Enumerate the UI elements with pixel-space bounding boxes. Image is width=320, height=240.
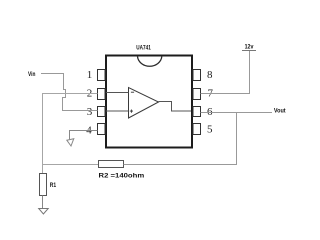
wire pin 7 to 12v supply (201, 51, 250, 94)
pin 2 box (98, 89, 106, 100)
pin 4 box (98, 124, 106, 135)
svg-text:R2 =140ohm: R2 =140ohm (99, 173, 145, 180)
pin 7 box (193, 89, 201, 100)
wire feedback node to R2 (43, 164, 100, 166)
pin 5 box (193, 124, 201, 135)
12v supply terminal bar (242, 50, 256, 52)
wire pin2 to inverting input (106, 92, 129, 94)
wire R2 to feedback vertical (124, 113, 237, 165)
U1 index notch (138, 57, 162, 67)
svg-text:8: 8 (207, 69, 213, 81)
pin 3 box (98, 107, 106, 117)
wire R1 to ground (42, 196, 44, 209)
pin 1 box (98, 70, 106, 81)
non-inverting input plus sign (130, 110, 133, 113)
resistor R2 (99, 161, 124, 168)
ground arrow at pin 4 (67, 139, 74, 146)
pin 8 box (193, 70, 201, 81)
wire op-amp output to pin 6 (159, 102, 192, 112)
svg-text:5: 5 (207, 123, 213, 135)
wire pin 2 to feedback node (43, 94, 98, 165)
resistor R1 (40, 174, 47, 196)
svg-text:R1: R1 (50, 182, 57, 189)
wire pin 4 to ground (70, 131, 98, 140)
svg-text:Vout: Vout (274, 108, 286, 115)
svg-text:12v: 12v (245, 44, 254, 51)
wire from Vin down to pin 3 (41, 74, 98, 111)
wire junction down to R1 (42, 165, 44, 174)
pin 6 box (193, 107, 201, 117)
wire pin 6 to Vout (201, 112, 273, 114)
svg-text:1: 1 (87, 69, 93, 81)
svg-text:UA741: UA741 (136, 45, 151, 52)
wire pin3 to non-inverting input (106, 110, 129, 112)
ground symbol below R1 (39, 209, 49, 215)
svg-text:Vin: Vin (28, 71, 35, 78)
op-amp triangle symbol (129, 88, 159, 118)
inverting input minus sign (131, 91, 134, 93)
op-amp U1 UA741 DIP-8 body (106, 56, 192, 148)
svg-text:3: 3 (87, 106, 93, 118)
